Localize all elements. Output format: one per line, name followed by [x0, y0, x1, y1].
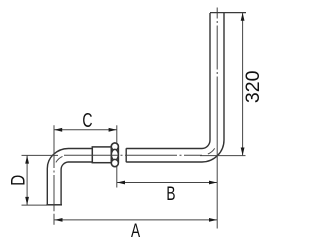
extension line B left (below nut): [116, 167, 118, 188]
centerline arc left elbow: [54, 155, 68, 169]
arrow D top: [25, 156, 29, 164]
svg-text:320: 320: [242, 70, 264, 103]
centerline left vertical (dash-dot): [53, 150, 55, 204]
extension line A left (left pipe centerline extended below cap): [53, 206, 55, 225]
arrow A right: [209, 218, 217, 222]
centerline arc right elbow: [202, 140, 217, 155]
extension line top for 320 (pipe top cap + extension): [210, 12, 246, 14]
extension line right vertical (pipe centerline extended down for B and A): [216, 138, 218, 229]
svg-text:B: B: [166, 183, 175, 205]
dimension line 320: [242, 13, 244, 155]
extension line C left (pipe centerline extended up): [53, 125, 55, 150]
extension line bottom for 320: [200, 155, 246, 157]
fitting body: [92, 147, 111, 163]
arrow B right: [209, 181, 217, 185]
arrow 320 bottom: [241, 148, 245, 156]
union nut (side view capsule): [111, 143, 118, 167]
centerline right vertical (dash-dot): [216, 8, 218, 139]
arrow A left: [55, 218, 63, 222]
svg-text:C: C: [82, 108, 92, 131]
extension line D bottom: [22, 204, 48, 206]
pipe right vertical leg with right elbow and upper horizontal run: [126, 13, 224, 162]
svg-text:D: D: [7, 175, 29, 186]
arrow B left: [117, 181, 125, 185]
dimension line B: [117, 182, 217, 184]
arrow C left: [54, 128, 62, 132]
arrow 320 top: [241, 13, 245, 21]
pipe bottom end cap: [46, 204, 62, 206]
dimension line C: [54, 129, 117, 131]
dimension line D: [26, 156, 28, 206]
centerline horizontal (dash-dot): [64, 154, 202, 156]
extension line C right (nut center extended up): [116, 125, 118, 143]
dimension line A: [54, 219, 217, 221]
arrow C right: [109, 128, 117, 132]
svg-text:A: A: [131, 220, 141, 242]
pipe left horizontal run, left elbow and left vertical leg: [47, 149, 92, 205]
extension line D top: [22, 154, 59, 156]
arrow D bottom: [25, 197, 29, 205]
